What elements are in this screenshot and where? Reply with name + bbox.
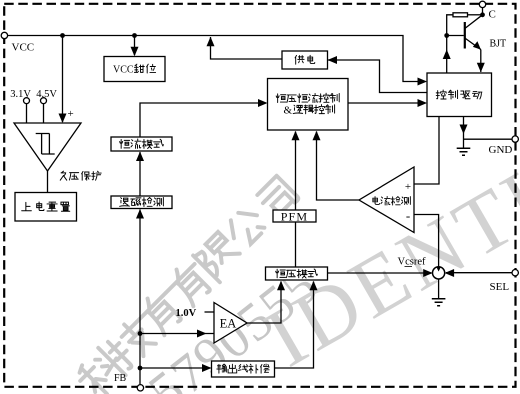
svg-text:4.5V: 4.5V [36, 89, 57, 100]
svg-text:3.1V: 3.1V [10, 89, 31, 100]
svg-text:+: + [405, 181, 411, 193]
svg-text:C: C [489, 8, 496, 20]
svg-text:Vcsref: Vcsref [398, 257, 426, 268]
svg-text:1.0V: 1.0V [176, 308, 197, 319]
svg-text:VCC: VCC [12, 42, 35, 54]
svg-text:EA: EA [220, 317, 237, 331]
svg-text:+: + [68, 108, 74, 120]
svg-text:BJT: BJT [490, 39, 507, 50]
svg-text:FB: FB [114, 373, 127, 384]
svg-text:-: - [406, 208, 410, 223]
svg-text:PFM: PFM [281, 209, 309, 223]
svg-text:&: & [284, 105, 293, 117]
svg-text:GND: GND [489, 144, 513, 156]
svg-text:IDENTIAL: IDENTIAL [251, 92, 520, 384]
svg-text:VCC: VCC [113, 65, 134, 76]
svg-text:SEL: SEL [490, 281, 510, 293]
